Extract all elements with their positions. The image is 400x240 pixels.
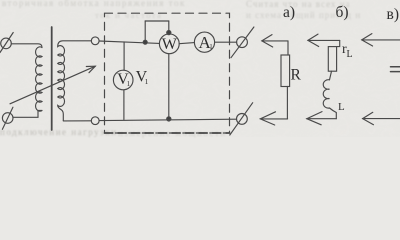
svg-text:L: L (338, 101, 345, 113)
svg-text:W: W (162, 36, 178, 53)
svg-text:L: L (347, 49, 353, 60)
svg-text:1: 1 (145, 77, 149, 86)
svg-text:R: R (291, 66, 302, 83)
svg-text:1: 1 (209, 43, 213, 51)
svg-text:б): б) (336, 4, 349, 21)
svg-text:а): а) (283, 4, 295, 21)
svg-text:в): в) (387, 6, 399, 23)
svg-text:1: 1 (127, 80, 131, 88)
